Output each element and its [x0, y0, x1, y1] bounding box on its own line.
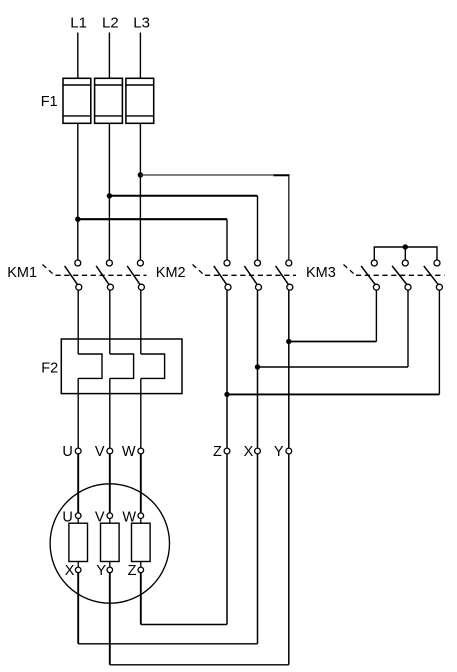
junction on L2: [107, 193, 112, 198]
F2 heater element 3: [141, 354, 165, 378]
wire F2 to terminal W: [140, 378, 142, 448]
star-point bus of KM3: [374, 247, 437, 260]
svg-text:KM3: KM3: [306, 265, 336, 281]
svg-text:F1: F1: [41, 94, 58, 110]
wire fuse3 to KM1 contact 3: [139, 123, 141, 260]
fuse F1 pole 2: [95, 78, 123, 123]
terminal Y: [286, 448, 292, 454]
contactor KM3 pole 2: [392, 260, 411, 290]
terminal X: [255, 448, 261, 454]
wire L1 to fuse: [77, 33, 79, 79]
wire terminal U to motor: [77, 454, 79, 513]
terminal Z: [224, 448, 230, 454]
wire motor X to terminal X: [78, 454, 257, 644]
svg-text:KM1: KM1: [7, 265, 37, 281]
junction delta 1: [286, 339, 291, 344]
wire motor Z to terminal Z: [141, 454, 227, 625]
contactor KM3 pole 1: [361, 260, 379, 290]
svg-text:V: V: [95, 444, 105, 460]
fuse F1 pole 1: [63, 78, 91, 123]
svg-text:W: W: [122, 444, 136, 460]
motor winding W-Z: [132, 513, 151, 573]
svg-text:KM2: KM2: [156, 265, 186, 281]
svg-text:Y: Y: [96, 563, 106, 579]
junction on L3: [138, 172, 143, 177]
wire KM3 pole1 to delta junction: [289, 290, 377, 341]
contactor KM1 pole 2: [96, 260, 113, 290]
contactor KM1 pole 3: [127, 260, 144, 290]
contactor KM1 linkage: [43, 265, 147, 276]
fuse F1 pole 3: [126, 78, 154, 123]
wire motor Y to terminal Y: [110, 454, 289, 665]
terminal U: [75, 448, 81, 454]
svg-text:X: X: [244, 444, 254, 460]
F2 heater element 2: [110, 354, 134, 378]
terminal W: [138, 448, 144, 454]
overload relay F2 body: [61, 339, 182, 394]
wire F2 to terminal U: [77, 378, 79, 448]
wire L3 feeder to KM2 contact 3: [140, 175, 289, 260]
contactor KM2 pole 3: [276, 260, 293, 290]
junction on L1: [75, 217, 80, 222]
wire terminal W to motor: [140, 454, 142, 513]
wire KM2 pole2 down: [257, 290, 259, 448]
contactor KM2 pole 1: [214, 260, 231, 290]
wire F2 to terminal V: [109, 378, 111, 448]
svg-text:L3: L3: [133, 15, 150, 32]
svg-text:L1: L1: [70, 15, 87, 32]
wire KM2 pole3 down: [288, 290, 290, 448]
contactor KM3 linkage: [344, 265, 445, 276]
svg-text:F2: F2: [41, 361, 58, 377]
wire fuse2 to KM1 contact 2: [108, 123, 110, 260]
wire KM1 pole1 to F2: [77, 290, 79, 354]
wire KM2 pole1 down: [226, 290, 228, 448]
svg-text:U: U: [62, 444, 72, 460]
wire L2 feeder to KM2 contact 2: [109, 196, 257, 260]
wire KM1 pole3 to F2: [140, 290, 142, 354]
contactor KM3 pole 3: [424, 260, 443, 290]
svg-text:Y: Y: [274, 444, 284, 460]
motor winding V-Y: [101, 513, 120, 573]
motor M1 body: [50, 484, 169, 603]
junction delta 3: [224, 392, 229, 397]
junction delta 2: [255, 364, 260, 369]
svg-text:X: X: [65, 563, 75, 579]
wire L1 feeder to KM2 contact 1: [78, 219, 227, 260]
svg-text:L2: L2: [102, 15, 119, 32]
wire fuse1 to KM1 contact 1: [77, 123, 79, 260]
wire L2 to fuse: [108, 33, 110, 79]
contactor KM2 linkage: [193, 265, 297, 276]
contactor KM1 pole 1: [65, 260, 82, 290]
wire KM1 pole2 to F2: [109, 290, 111, 354]
svg-text:Z: Z: [213, 444, 222, 460]
F2 heater element 1: [78, 354, 102, 378]
motor winding U-X: [69, 513, 88, 573]
svg-text:Z: Z: [128, 563, 137, 579]
terminal V: [107, 448, 113, 454]
wire terminal V to motor: [109, 454, 111, 513]
wire KM3 pole2 to delta junction: [258, 290, 409, 367]
junction star point: [403, 244, 408, 249]
wire KM3 pole3 to delta junction: [227, 290, 439, 394]
wire L3 to fuse: [139, 33, 141, 79]
contactor KM2 pole 2: [244, 260, 261, 290]
